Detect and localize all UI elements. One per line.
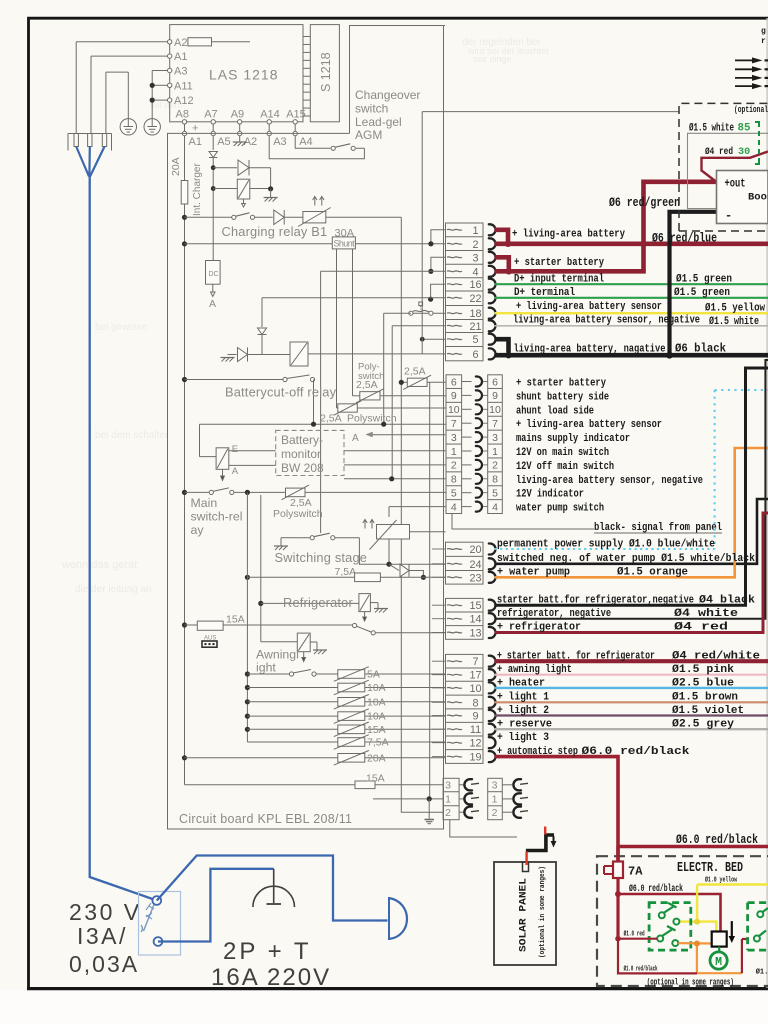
wire +water pump pin23 (orange) bbox=[495, 448, 768, 577]
relay actuator stub bbox=[222, 469, 224, 476]
breaker terminal bottom bbox=[154, 937, 163, 946]
wire A1 to mains plug contact 2 bbox=[91, 55, 168, 57]
svg-text:10A: 10A bbox=[367, 682, 386, 694]
svg-text:Ø1.5 yellow: Ø1.5 yellow bbox=[705, 303, 765, 315]
stub wires LAS to board pins bbox=[184, 124, 186, 131]
relay contact 85/30 green dashed bbox=[755, 122, 761, 164]
wire pin1 internal elbow bbox=[431, 230, 446, 244]
pin A2 (LAS left) bbox=[168, 40, 172, 44]
svg-text:Ø1.5 brown: Ø1.5 brown bbox=[672, 692, 738, 704]
wire A5 down to DC box bbox=[212, 136, 214, 150]
wire coil to junction bbox=[213, 188, 237, 190]
awning switch line bbox=[245, 671, 250, 676]
relay coil batterycut-off bbox=[290, 342, 308, 366]
fuse 15A bottom connector bbox=[185, 784, 356, 786]
junction red pin1-2 bbox=[505, 241, 511, 247]
connector block2 column1 bbox=[446, 375, 462, 514]
svg-text:DC: DC bbox=[209, 271, 219, 278]
svg-text:3: 3 bbox=[472, 252, 478, 264]
svg-text:Awningl: Awningl bbox=[256, 648, 299, 662]
svg-text:9: 9 bbox=[451, 390, 457, 402]
svg-text:Switching stage: Switching stage bbox=[275, 550, 368, 565]
module LAS 1218 bbox=[170, 25, 303, 122]
wire pin3 internal elbow bbox=[431, 257, 446, 271]
wires monitor to block2 pins 1,2 bbox=[344, 450, 446, 452]
double arrows above B1 coil bbox=[314, 197, 316, 206]
svg-text:9: 9 bbox=[472, 711, 478, 723]
junction refrigerator coil bbox=[258, 601, 263, 606]
wire booster negative (black) bbox=[670, 212, 717, 355]
svg-text:18: 18 bbox=[469, 308, 481, 320]
wire pin4 internal bbox=[321, 270, 446, 272]
wire starter batt refrigerator negative pin15 (black) bbox=[495, 368, 768, 605]
svg-text:Boos: Boos bbox=[748, 192, 768, 204]
wire A2 to mains plug contact 1 bbox=[76, 41, 167, 43]
svg-text:S 1218: S 1218 bbox=[319, 52, 333, 92]
bed green switch box 1 bbox=[649, 903, 691, 951]
svg-text:A12: A12 bbox=[174, 95, 194, 107]
svg-text:16: 16 bbox=[469, 279, 481, 291]
batterycut-off switch contacts bbox=[283, 377, 287, 381]
connector block3 column2 bbox=[488, 778, 503, 819]
svg-text:2: 2 bbox=[451, 460, 457, 472]
svg-text:ELECTR. BED: ELECTR. BED bbox=[677, 861, 743, 876]
svg-text:die der leitung an: die der leitung an bbox=[75, 584, 152, 595]
svg-text:4: 4 bbox=[472, 266, 478, 278]
arrows top right bbox=[735, 59, 753, 61]
svg-text:Charging relay B1: Charging relay B1 bbox=[222, 224, 328, 239]
svg-text:shunt battery side: shunt battery side bbox=[516, 391, 609, 403]
earth pin symbol 2P+T bbox=[273, 869, 275, 903]
svg-text:M: M bbox=[715, 956, 722, 969]
wire shunt line (pin2 internal) bbox=[185, 243, 333, 245]
polyswitch fuse pin10 2.5A bbox=[338, 404, 358, 412]
svg-text:Ø2.5 grey: Ø2.5 grey bbox=[672, 719, 735, 731]
polyswitch fuse pin9 2.5A bbox=[360, 392, 380, 400]
switching stage electronic switch box bbox=[377, 525, 410, 540]
wire +living-area battery bus pin2 (red) bbox=[495, 242, 768, 247]
shunt box bbox=[332, 237, 355, 249]
fuse 10A heater bbox=[245, 685, 250, 690]
switching stage switch contacts bbox=[310, 536, 314, 540]
breaker blade and marks bbox=[144, 905, 155, 932]
svg-text:1: 1 bbox=[472, 225, 478, 237]
svg-text:Shunt: Shunt bbox=[334, 239, 356, 249]
svg-text:8: 8 bbox=[451, 474, 457, 486]
DC converter box bbox=[206, 261, 221, 285]
svg-text:230 V: 230 V bbox=[69, 899, 142, 925]
svg-text:9: 9 bbox=[492, 390, 498, 402]
svg-text:+ light 1: + light 1 bbox=[497, 692, 549, 704]
svg-text:Ø6.0 red/black: Ø6.0 red/black bbox=[582, 746, 691, 758]
svg-text:10A: 10A bbox=[367, 711, 386, 723]
svg-text:starter batt.for refrigerator,: starter batt.for refrigerator,negative bbox=[497, 595, 694, 607]
wire pin16 internal elbow bbox=[431, 284, 446, 299]
svg-text:6: 6 bbox=[472, 349, 478, 361]
wire living-area battery negative pin5 (black) bbox=[495, 339, 509, 352]
junction pin3-pin4 bus bbox=[428, 269, 433, 274]
cyan dotted optional box bbox=[714, 390, 716, 549]
svg-text:8: 8 bbox=[492, 474, 498, 486]
mains plug contact 3 bbox=[102, 134, 106, 147]
svg-text:LAS 1218: LAS 1218 bbox=[209, 67, 279, 83]
svg-text:7: 7 bbox=[492, 418, 498, 430]
svg-text:+: + bbox=[192, 123, 198, 135]
wire pin22 internal (D+ line) bbox=[262, 297, 446, 299]
wire A3/A11/A12 to earth 2 bbox=[152, 70, 167, 72]
svg-text:r: r bbox=[761, 37, 766, 46]
svg-text:I3A/: I3A/ bbox=[77, 923, 128, 949]
bed red to relay bbox=[618, 894, 721, 932]
svg-text:2: 2 bbox=[445, 807, 451, 819]
svg-text:D+ terminal: D+ terminal bbox=[514, 287, 575, 299]
svg-text:Circuit board KPL EBL 208/11: Circuit board KPL EBL 208/11 bbox=[179, 812, 352, 826]
wire sw-stage switch to pin24 line bbox=[359, 538, 445, 565]
bed red right vertical bbox=[741, 939, 743, 973]
optional dashed box bbox=[679, 103, 768, 231]
svg-text:wenn das gerat: wenn das gerat bbox=[61, 559, 137, 571]
bed dashed box bbox=[597, 856, 768, 986]
svg-text:switch-rel: switch-rel bbox=[191, 510, 243, 524]
wire junction down to chassis ground bbox=[270, 189, 272, 197]
junction A12 bbox=[150, 98, 155, 103]
svg-text:24: 24 bbox=[469, 559, 481, 571]
junction charger diode top bbox=[211, 165, 216, 170]
svg-text:Polyswitch: Polyswitch bbox=[347, 413, 397, 425]
svg-text:2: 2 bbox=[492, 460, 498, 472]
svg-text:water pump switch: water pump switch bbox=[516, 503, 604, 515]
wire water pump 7,5A line bbox=[247, 576, 354, 578]
svg-text:+ starter battery: + starter battery bbox=[514, 257, 604, 269]
svg-text:17: 17 bbox=[469, 670, 481, 682]
wire pin21 internal bbox=[392, 325, 445, 327]
svg-text:(optional in some ranges): (optional in some ranges) bbox=[647, 977, 734, 988]
svg-text:2: 2 bbox=[492, 807, 498, 819]
block3 hooks column2 bbox=[502, 784, 512, 786]
svg-text:20A: 20A bbox=[367, 752, 386, 764]
svg-text:SOLAR PANEL: SOLAR PANEL bbox=[519, 878, 530, 952]
svg-text:0,03A: 0,03A bbox=[69, 951, 139, 977]
svg-text:5: 5 bbox=[472, 334, 478, 346]
wire O4 red thin bbox=[702, 152, 768, 182]
chassis ground batterycut-off bbox=[221, 357, 235, 359]
svg-text:+ living-area battery sensor: + living-area battery sensor bbox=[516, 419, 662, 431]
polyswitch fuse pin6 2.5A bbox=[401, 381, 407, 383]
svg-text:Lead-gel: Lead-gel bbox=[355, 115, 402, 129]
refrigerator switch contacts bbox=[353, 623, 357, 627]
wire pin8 sensor negative line bbox=[344, 478, 446, 480]
svg-text:refrigerator, negative: refrigerator, negative bbox=[497, 608, 611, 620]
wire pin6 internal line bbox=[308, 353, 446, 355]
wire permanent power supply pin20 (blue/white dotted) bbox=[495, 548, 715, 550]
svg-text:4: 4 bbox=[492, 501, 498, 513]
svg-text:+ automatic step: + automatic step bbox=[497, 746, 578, 758]
svg-text:ahunt load side: ahunt load side bbox=[516, 405, 594, 417]
junction sensor line left bbox=[311, 422, 316, 427]
svg-text:7A: 7A bbox=[628, 865, 643, 879]
wire water pump feed down bbox=[388, 507, 390, 517]
mains plug contact 2 bbox=[88, 134, 92, 147]
bed red O1.0 wire bbox=[618, 938, 657, 940]
socket symbol bbox=[388, 897, 390, 940]
svg-text:21: 21 bbox=[469, 321, 481, 333]
connection ladder LAS-S1218 bbox=[303, 36, 310, 38]
svg-text:switch: switch bbox=[358, 371, 384, 382]
bed switch2 contacts bbox=[757, 911, 763, 917]
svg-text:Ø4 black: Ø4 black bbox=[699, 595, 756, 607]
svg-text:7: 7 bbox=[451, 418, 457, 430]
fuse 5A awning bbox=[338, 670, 365, 679]
bus wire from board pin A1 down (charger bus) bbox=[184, 136, 186, 181]
svg-text:12V off main switch: 12V off main switch bbox=[516, 461, 614, 473]
solar red mark lower bbox=[525, 852, 527, 866]
svg-text:15: 15 bbox=[469, 600, 481, 612]
svg-text:permanent power supply Ø1.0 bl: permanent power supply Ø1.0 blue/white bbox=[497, 539, 715, 551]
block1 pin marks and numbers bbox=[447, 228, 462, 231]
svg-text:5: 5 bbox=[492, 488, 498, 500]
fuse bus from main switch bbox=[246, 492, 248, 742]
svg-text:3: 3 bbox=[492, 432, 498, 444]
wire vertical x=422 (optional feed) bbox=[421, 112, 423, 354]
junction bed red O1.0 bbox=[615, 936, 621, 942]
svg-text:A: A bbox=[352, 433, 359, 444]
svg-text:living-area battery, nagative: living-area battery, nagative bbox=[514, 344, 666, 356]
svg-text:1: 1 bbox=[492, 446, 498, 458]
wire +refrigerator pin13 (red) bbox=[495, 513, 768, 633]
blue mains cable down left side bbox=[90, 177, 157, 901]
svg-text:10: 10 bbox=[448, 404, 460, 416]
svg-text:A9: A9 bbox=[231, 109, 244, 121]
svg-text:2: 2 bbox=[472, 239, 478, 251]
svg-text:14: 14 bbox=[469, 614, 481, 626]
svg-text:2,5A: 2,5A bbox=[320, 413, 342, 425]
junction fuse bus 7,5A line bbox=[245, 575, 250, 580]
changeover switch contacts bbox=[331, 146, 335, 150]
bed red bottom wire bbox=[618, 939, 697, 974]
solar red mark upper bbox=[544, 827, 546, 835]
svg-text:1: 1 bbox=[451, 446, 457, 458]
wire D+ terminal pin22 (green) bbox=[495, 297, 768, 299]
svg-text:20: 20 bbox=[469, 544, 481, 556]
junction pin1 gnd bbox=[427, 796, 432, 801]
refrigerator relay ground bbox=[370, 602, 378, 604]
junction red bus booster bbox=[640, 240, 647, 247]
wire plug contact 3 to earth 1 bbox=[105, 72, 107, 133]
diode batterycut-off top bbox=[257, 328, 266, 335]
svg-text:E: E bbox=[232, 444, 238, 455]
svg-text:+ living-area battery: + living-area battery bbox=[512, 229, 625, 241]
solar cable arrow bbox=[553, 836, 555, 843]
fuse 15A refrigerator bbox=[197, 621, 223, 630]
bed red feed vertical bbox=[616, 878, 619, 939]
arrow A below DC box bbox=[212, 284, 214, 292]
bed red top bus bbox=[618, 845, 768, 848]
blue wire breaker bottom loop bbox=[158, 869, 274, 942]
battery monitor box BW208 bbox=[276, 430, 344, 475]
junction water pump line bbox=[421, 575, 426, 580]
wire internal vertical bus to ground bbox=[429, 382, 431, 799]
pin A3 (LAS left) bbox=[168, 68, 172, 72]
svg-text:Ø1.5 white: Ø1.5 white bbox=[709, 316, 759, 328]
svg-text:A3: A3 bbox=[273, 136, 286, 148]
svg-text:7,5A: 7,5A bbox=[367, 737, 389, 749]
wire +living sensor pin18 (yellow) bbox=[495, 312, 768, 314]
svg-text:1: 1 bbox=[445, 794, 451, 806]
svg-text:3: 3 bbox=[451, 432, 457, 444]
junction red pin3-4 bbox=[506, 268, 512, 274]
svg-text:A14: A14 bbox=[260, 109, 280, 121]
junction yellow bbox=[694, 919, 700, 925]
ground mark bottom connector bbox=[425, 819, 435, 821]
awning relay stub bbox=[303, 652, 305, 658]
svg-text:Battery-: Battery- bbox=[281, 433, 323, 447]
block1 connector hooks bbox=[489, 224, 496, 235]
charging relay aux box bbox=[237, 179, 250, 199]
junction B1 line to pin6 fuse bbox=[399, 380, 404, 385]
svg-text:Ø6 red/blue: Ø6 red/blue bbox=[652, 232, 717, 246]
svg-text:A11: A11 bbox=[174, 80, 193, 92]
block3 hooks column1 bbox=[459, 784, 464, 786]
svg-text:23: 23 bbox=[469, 572, 481, 584]
svg-text:Ø4 red: Ø4 red bbox=[705, 146, 733, 158]
svg-text:Ø6 black: Ø6 black bbox=[675, 343, 726, 356]
refrigerator relay box bbox=[359, 594, 371, 612]
svg-text:Ø4 red: Ø4 red bbox=[674, 622, 728, 634]
awning relay ground bbox=[310, 641, 317, 643]
fuse 7,5A light3 bbox=[247, 741, 337, 743]
wire D+ input pin16 (green) bbox=[495, 283, 768, 285]
stub wires into lower cells bbox=[432, 548, 446, 550]
blue wire breaker to top-right bbox=[157, 856, 378, 921]
wire +starter battery bus pin4 (red) bbox=[495, 269, 646, 274]
svg-text:Ø6.0 red/black: Ø6.0 red/black bbox=[676, 832, 758, 847]
relay coil B1 (resistor w/ diagonal) bbox=[303, 212, 326, 223]
svg-text:+ living-area battery sensor: + living-area battery sensor bbox=[516, 301, 662, 313]
svg-text:1: 1 bbox=[492, 794, 498, 806]
sensor switch contacts bbox=[409, 311, 413, 315]
svg-text:8: 8 bbox=[472, 697, 478, 709]
svg-text:7: 7 bbox=[472, 656, 478, 668]
fuse 10A light2 bbox=[245, 714, 250, 719]
wire +heater pin10 (blue) bbox=[495, 687, 768, 689]
sensor switch actuator bbox=[419, 302, 423, 306]
svg-text:12V on main switch: 12V on main switch bbox=[516, 447, 609, 459]
junction charger bus shunt line bbox=[182, 241, 187, 246]
svg-text:12: 12 bbox=[469, 738, 481, 750]
svg-text:Changeover: Changeover bbox=[355, 88, 420, 102]
pin A11 (LAS left) bbox=[168, 83, 172, 87]
fuse 7A red bbox=[613, 862, 623, 879]
junction charger bus B1 line bbox=[182, 215, 187, 220]
wire switched neg water pump pin24 (black) bbox=[495, 499, 768, 564]
svg-text:Ø1.0 red/black: Ø1.0 red/black bbox=[624, 965, 658, 974]
connector block1 body bbox=[446, 223, 484, 361]
bed switch1 contacts bbox=[659, 912, 665, 918]
awning relay box bbox=[297, 633, 310, 652]
wire +awning light pin17 (pink) bbox=[495, 674, 768, 676]
svg-text:Ø4 red/white: Ø4 red/white bbox=[672, 651, 760, 663]
earth symbol 1 bbox=[120, 119, 136, 135]
junction pin8-pin21 link bbox=[389, 476, 394, 481]
svg-text:+ heater: + heater bbox=[497, 677, 545, 689]
wire pin18 sensor switch line bbox=[411, 312, 446, 314]
wire A2(board) to chassis ground bbox=[239, 136, 241, 142]
main 12V switch line bbox=[182, 490, 187, 495]
wire 15A refrigerator line bbox=[182, 622, 187, 627]
wire pin18 to block2 sensor line bbox=[384, 312, 411, 314]
wire block3 pin1 line bbox=[373, 798, 443, 800]
fuse 10A light1 bbox=[245, 699, 250, 704]
connector block1 lower cells bbox=[446, 542, 484, 584]
double arrows switching stage bbox=[364, 520, 366, 529]
fuse 2,5A main line bbox=[286, 488, 306, 497]
svg-text:+ starter batt. for refrigerat: + starter batt. for refrigerator bbox=[497, 651, 655, 663]
svg-text:30: 30 bbox=[738, 147, 750, 158]
wire charger diode branch bbox=[213, 167, 237, 169]
svg-text:12V indicator: 12V indicator bbox=[516, 489, 584, 501]
svg-text:A5: A5 bbox=[217, 136, 230, 148]
wire +starter battery pin3 (red) bbox=[495, 257, 509, 269]
pin A12 (LAS left) bbox=[168, 98, 172, 102]
svg-text:+ light 2: + light 2 bbox=[497, 705, 549, 717]
svg-text:3: 3 bbox=[492, 780, 498, 792]
batterycut-off switch line from bus bbox=[182, 377, 187, 382]
wire sensor line to main relay bbox=[199, 424, 201, 456]
svg-text:15A: 15A bbox=[367, 724, 386, 736]
svg-text:6: 6 bbox=[492, 376, 498, 388]
svg-text:+ light 3: + light 3 bbox=[497, 732, 549, 744]
svg-text:Ø1.5 green: Ø1.5 green bbox=[674, 287, 730, 299]
wire A3(board) to changeover switch bbox=[269, 136, 364, 159]
fuse on A2 line bbox=[188, 38, 212, 46]
wire black signal from panel bbox=[452, 514, 594, 530]
svg-text:16A 220V: 16A 220V bbox=[211, 964, 331, 991]
junction pin24 line bbox=[386, 562, 391, 567]
svg-text:ight: ight bbox=[256, 661, 276, 675]
chassis ground at A2 board pin bbox=[233, 141, 247, 143]
svg-text:10: 10 bbox=[489, 404, 501, 416]
B1 switch contacts bbox=[232, 215, 236, 219]
bed orange wire bbox=[678, 942, 711, 945]
diode charging branch bbox=[238, 160, 249, 175]
wire batterycut-off switch to sensor line bbox=[313, 380, 315, 425]
svg-text:ay: ay bbox=[191, 523, 205, 537]
wire coil to panel signal bbox=[410, 531, 446, 533]
svg-text:22: 22 bbox=[469, 293, 481, 305]
svg-text:6: 6 bbox=[451, 376, 457, 388]
svg-text:5A: 5A bbox=[367, 669, 380, 681]
svg-text:Ø1.5 pink: Ø1.5 pink bbox=[672, 664, 735, 676]
svg-text:Ø1.5 violet: Ø1.5 violet bbox=[672, 705, 744, 717]
main switch relay box bbox=[216, 448, 229, 470]
svg-text:+ awning light: + awning light bbox=[497, 664, 572, 676]
svg-text:A8: A8 bbox=[176, 109, 189, 121]
svg-text:19: 19 bbox=[469, 752, 481, 764]
svg-text:living-area battery sensor, ne: living-area battery sensor, negative bbox=[513, 315, 700, 327]
fuse 20A automatic step bbox=[182, 755, 187, 760]
wire block3 pin2 up to B1 bbox=[401, 811, 443, 813]
mains breaker box bbox=[139, 892, 181, 956]
chassis ground switching stage bbox=[292, 537, 310, 539]
diode batterycut-off left bbox=[238, 348, 248, 362]
pins A1 A5 A2 A3 A4 (board top) bbox=[182, 131, 186, 135]
diode on A5 line bbox=[209, 152, 217, 158]
bed green switch box 2 bbox=[748, 903, 768, 951]
svg-text:+ starter battery: + starter battery bbox=[516, 378, 606, 390]
svg-text:A7: A7 bbox=[204, 109, 217, 121]
diode to water pump line bbox=[389, 564, 399, 570]
svg-text:nur einge: nur einge bbox=[474, 54, 512, 64]
